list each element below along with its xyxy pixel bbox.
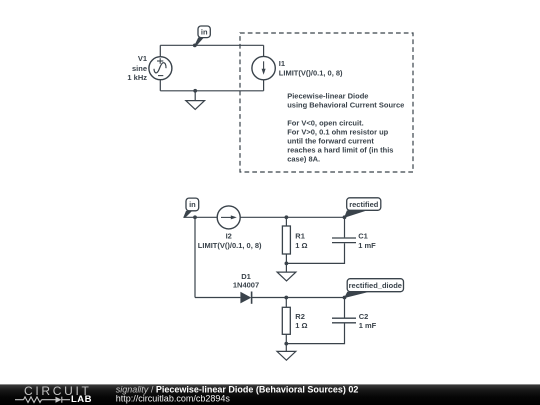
current source I2 [217,206,240,229]
wire R1 bottom to C1 bottom [286,243,344,263]
svg-text:reaches a hard limit of (in th: reaches a hard limit of (in this [287,146,393,155]
label I2 LIMIT [198,232,262,250]
junction dot left vertical [193,215,197,219]
label D1 1N4007 [233,272,259,289]
ground (below R2) [277,344,296,361]
ground (below R1) [277,263,296,281]
node rectified_diode [344,279,404,298]
logo schematic line with resistor and diode [15,397,70,403]
ground (top circuit) [186,91,205,110]
svg-text:LIMIT(V()/0.1, 0, 8): LIMIT(V()/0.1, 0, 8) [279,68,343,77]
svg-text:R2: R2 [295,312,305,321]
junction dot R1 top [285,215,289,219]
annotation dashed box [240,33,413,172]
svg-text:case) 8A.: case) 8A. [287,155,320,164]
svg-text:I2: I2 [226,232,232,241]
svg-text:1N4007: 1N4007 [233,280,259,289]
svg-text:LIMIT(V()/0.1, 0, 8): LIMIT(V()/0.1, 0, 8) [198,241,262,250]
svg-text:I1: I1 [279,59,285,68]
svg-text:LAB: LAB [71,394,92,405]
wire diode row left segment [195,297,240,299]
svg-text:in: in [201,28,208,37]
junction dot R2 top [284,296,288,300]
label C2 1 mF [359,312,377,330]
diode D1 [240,292,251,304]
svg-text:1 mF: 1 mF [358,241,376,250]
capacitor C1 [332,217,356,242]
junction dot rectified [343,215,347,219]
svg-text:V1: V1 [138,54,147,63]
wire bottom rail V1 to I1 [160,90,263,92]
svg-text:rectified: rectified [349,200,379,209]
label V1 sine 1 kHz [127,54,147,82]
svg-text:C2: C2 [359,312,369,321]
wire V1 bottom lead [159,79,161,91]
svg-text:For V<0, open circuit.: For V<0, open circuit. [287,119,363,128]
label R1 1 ohm [295,232,307,250]
svg-text:using Behavioral Current Sourc: using Behavioral Current Source [287,101,404,110]
svg-text:C1: C1 [358,232,368,241]
svg-text:1 Ω: 1 Ω [295,241,307,250]
annotation text [287,92,404,164]
svg-text:Piecewise-linear Diode: Piecewise-linear Diode [287,92,368,101]
svg-text:in: in [189,200,196,209]
wire top rail V1 to I1 [160,44,263,46]
current source I1 [252,56,275,79]
resistor R2 [282,298,290,344]
junction dot top rail at in flag [193,44,197,48]
svg-text:until the forward current: until the forward current [287,137,374,146]
voltage source V1 [149,57,172,80]
node in (bottom circuit) [183,198,199,218]
label C1 1 mF [358,232,376,250]
svg-text:sine: sine [132,64,147,73]
label I1 LIMIT [279,59,343,77]
label R2 1 ohm [295,312,307,330]
svg-text:1 mF: 1 mF [359,321,377,330]
resistor R1 [282,217,290,263]
wire left vertical in to diode row [194,217,196,297]
wire V1 top lead [159,45,161,56]
svg-text:For V>0, 0.1 ohm resistor up: For V>0, 0.1 ohm resistor up [287,128,388,137]
wire I2 to rectified junction [240,216,344,218]
node in (top circuit) [194,26,210,46]
svg-text:http://circuitlab.com/cb2894s: http://circuitlab.com/cb2894s [116,394,231,404]
wire I1 top lead [263,45,265,56]
junction dot R2 bottom [284,342,288,346]
svg-text:1 Ω: 1 Ω [295,321,307,330]
wire R2 bottom to C2 bottom [286,323,344,343]
junction dot rectified_diode [343,296,347,300]
wire in stub to I2 [184,216,218,218]
wire I1 bottom lead [263,80,265,91]
svg-text:rectified_diode: rectified_diode [349,281,402,290]
junction dot bottom rail at ground [193,89,197,93]
wire diode row right segment [252,297,345,299]
junction dot R1 bottom [285,262,289,266]
node rectified [344,198,381,218]
svg-text:1 kHz: 1 kHz [127,73,147,82]
svg-text:R1: R1 [295,232,305,241]
capacitor C2 [332,298,356,323]
